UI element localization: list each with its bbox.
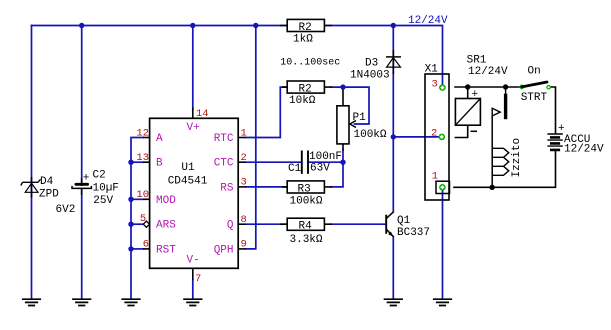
pin 7 V- <box>187 255 202 286</box>
ground at D4 <box>22 299 41 305</box>
X1 pin 3 <box>432 79 446 91</box>
svg-text:STRT: STRT <box>521 92 548 104</box>
transistor Q1 BC337 <box>386 212 430 239</box>
pin 14 V+ <box>187 108 209 135</box>
wire R2 10k right to P1 wiper <box>331 87 369 124</box>
battery ACCU <box>547 123 604 156</box>
svg-text:25V: 25V <box>93 195 113 207</box>
svg-text:Q: Q <box>227 220 234 232</box>
svg-text:+: + <box>83 173 90 185</box>
svg-text:14: 14 <box>196 108 209 120</box>
wire left vertical to D4 and ground <box>31 26 33 299</box>
pin 9 QPH <box>214 239 247 257</box>
svg-text:C2: C2 <box>93 170 106 182</box>
svg-text:1: 1 <box>432 171 438 183</box>
svg-text:Q1: Q1 <box>397 215 411 227</box>
pin 13 B <box>136 152 163 170</box>
resistor R2 1k <box>280 19 332 45</box>
svg-text:ARS: ARS <box>156 220 176 232</box>
wire node down to R3 right <box>331 162 343 187</box>
svg-text:6V2: 6V2 <box>56 204 76 216</box>
svg-text:2: 2 <box>431 128 437 140</box>
svg-text:QPH: QPH <box>214 244 234 256</box>
svg-text:R2: R2 <box>299 84 312 96</box>
wire C2 branch <box>81 26 83 299</box>
svg-text:12/24V: 12/24V <box>564 144 604 156</box>
pin 12 A <box>136 128 163 146</box>
svg-text:SR1: SR1 <box>467 55 487 67</box>
X1 pin 2 <box>431 128 445 141</box>
svg-text:R2: R2 <box>299 22 312 34</box>
junction node contact top <box>503 84 508 89</box>
ground at X1 pin1 <box>433 299 452 305</box>
svg-text:V+: V+ <box>187 122 200 134</box>
junction node D3-Q1-X1pin2 <box>391 134 396 139</box>
resistor R4 <box>280 218 332 246</box>
junction node bus pin13 <box>128 160 133 165</box>
svg-text:CD4541: CD4541 <box>168 176 208 188</box>
svg-text:D4: D4 <box>40 176 54 188</box>
wire 12/24V rail through D3 down to Q1 collector <box>392 26 394 213</box>
ground at U1 bus <box>121 299 140 305</box>
svg-text:P1: P1 <box>353 112 367 124</box>
svg-text:5: 5 <box>140 213 146 225</box>
ignition coil Izzito <box>492 138 523 178</box>
junction node bus pin10 <box>128 197 133 202</box>
wire RTC pin1 to R2 10k <box>246 87 287 137</box>
wire battery minus to X1 pin1 <box>454 152 556 188</box>
svg-text:8: 8 <box>241 214 247 226</box>
svg-text:63V: 63V <box>310 162 330 174</box>
svg-text:6: 6 <box>143 239 149 251</box>
capacitor C1 <box>288 151 342 176</box>
svg-text:+: + <box>472 89 479 101</box>
svg-text:A: A <box>156 133 163 145</box>
pin 1 RTC <box>214 128 247 146</box>
relay contact bar <box>505 87 507 119</box>
X1 pin 1 <box>432 171 446 191</box>
connector X1 <box>425 64 450 201</box>
wire P1 bottom to C1 node <box>342 150 344 162</box>
junction node bus pin5 <box>128 222 133 227</box>
svg-text:RS: RS <box>220 182 234 194</box>
svg-text:1N4003: 1N4003 <box>350 70 390 82</box>
pin 8 Q <box>227 214 247 232</box>
wire relay coil bottom hook <box>455 125 467 137</box>
resistor R3 <box>282 181 332 208</box>
ground at pin7 <box>183 299 202 305</box>
svg-text:BC337: BC337 <box>397 227 430 239</box>
wire bus stub pin10 <box>131 198 144 200</box>
pin 2 CTC <box>214 152 247 170</box>
svg-text:Izzito: Izzito <box>511 138 523 178</box>
svg-text:2: 2 <box>241 152 247 164</box>
svg-text:D3: D3 <box>365 58 378 70</box>
pin 10 MOD <box>136 189 176 207</box>
svg-text:100kΩ: 100kΩ <box>290 196 323 208</box>
svg-text:10kΩ: 10kΩ <box>289 95 316 107</box>
svg-text:9: 9 <box>241 239 247 251</box>
svg-text:V-: V- <box>187 255 200 267</box>
diode D3 1N4003 <box>350 50 401 82</box>
wire ground bus left of U1 <box>131 138 143 299</box>
wire bus stub pin13 <box>131 161 144 163</box>
capacitor C2 electrolytic <box>72 170 119 208</box>
svg-text:100kΩ: 100kΩ <box>354 129 387 141</box>
wire X1 pin3 to relay and switch <box>455 86 520 88</box>
wire switch to battery plus <box>550 87 555 133</box>
svg-text:12: 12 <box>136 128 149 140</box>
svg-text:R4: R4 <box>299 221 313 233</box>
junction node rail-QPH <box>253 23 258 28</box>
wire RS pin3 to R3 left <box>246 186 287 188</box>
junction node C1-P1-R3 <box>340 160 345 165</box>
svg-text:7: 7 <box>195 273 201 285</box>
wire node to X1 pin2 <box>393 136 438 138</box>
junction node rail-D3 <box>391 23 396 28</box>
ground at C2 <box>72 299 91 305</box>
svg-text:C1: C1 <box>288 163 302 175</box>
resistor R2 10k <box>282 81 332 107</box>
svg-text:MOD: MOD <box>156 195 176 207</box>
svg-text:10µF: 10µF <box>93 183 119 195</box>
switch On/STRT <box>520 66 550 105</box>
svg-text:R3: R3 <box>298 184 311 196</box>
svg-text:U1: U1 <box>181 162 195 174</box>
svg-text:RTC: RTC <box>214 133 234 145</box>
ground at Q1 emitter <box>384 299 403 305</box>
svg-text:1kΩ: 1kΩ <box>293 34 313 46</box>
junction node relay plus <box>465 84 470 89</box>
wire bus stub pin6 <box>131 248 144 250</box>
potentiometer P1 <box>337 90 387 151</box>
svg-text:10..100sec: 10..100sec <box>280 58 340 69</box>
zener diode D4 <box>21 176 76 216</box>
svg-text:3.3kΩ: 3.3kΩ <box>290 234 323 246</box>
junction node coil bottom <box>490 185 495 190</box>
svg-text:On: On <box>528 66 541 78</box>
wire Q1 emitter to ground <box>392 237 394 299</box>
junction node R2-P1 <box>340 84 345 89</box>
svg-text:13: 13 <box>136 152 149 164</box>
svg-text:12/24V: 12/24V <box>408 15 448 27</box>
wire top 12/24V rail <box>32 26 443 85</box>
svg-text:100nF: 100nF <box>309 151 342 163</box>
relay SR1 coil <box>455 55 508 132</box>
svg-text:CTC: CTC <box>214 158 234 170</box>
junction node bus pin6 <box>128 246 133 251</box>
wire C1 right to node <box>308 161 343 163</box>
pin 3 RS <box>220 177 247 195</box>
svg-text:B: B <box>156 158 163 170</box>
wire bus stub pin5 <box>131 223 143 225</box>
svg-text:X1: X1 <box>425 64 439 76</box>
svg-text:RST: RST <box>156 244 176 256</box>
junction node rail-C2 <box>79 23 84 28</box>
svg-text:10: 10 <box>136 189 149 201</box>
svg-text:3: 3 <box>432 79 438 91</box>
svg-text:3: 3 <box>241 177 247 189</box>
pin 6 RST <box>143 239 177 257</box>
junction node rail-V+ <box>190 23 195 28</box>
wire pin14 V+ drop <box>192 26 194 111</box>
wire R4 right to Q1 base <box>332 223 386 225</box>
relay actuator flag <box>492 108 500 187</box>
wire X1 pin1 to ground <box>442 191 444 299</box>
pin 5 ARS inverted <box>140 213 176 232</box>
IC U1 CD4541 <box>150 118 239 268</box>
svg-text:12/24V: 12/24V <box>468 66 508 78</box>
svg-text:ZPD: ZPD <box>39 189 59 201</box>
wire relay coil top lead <box>467 87 469 99</box>
wire CTC pin2 to C1 <box>246 161 302 163</box>
wire Q pin8 to R4 left <box>246 223 287 225</box>
wire pin7 V- to ground <box>192 280 194 299</box>
wire QPH pin9 to rail <box>246 26 256 249</box>
svg-text:1: 1 <box>241 128 247 140</box>
